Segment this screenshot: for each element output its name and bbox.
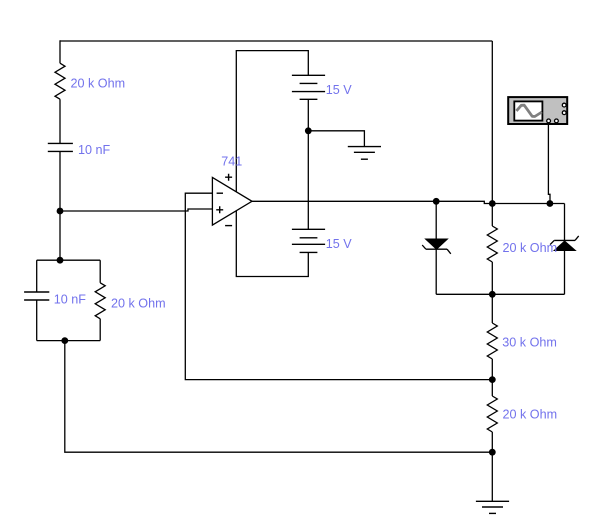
wire RC box right upper	[99, 260, 101, 283]
ground GND1	[348, 147, 381, 160]
op-amp marks: V- minus	[225, 225, 232, 227]
wire R4 to node I	[491, 359, 493, 380]
op-amp marks: inverting minus	[217, 192, 223, 194]
wire top rail	[60, 40, 492, 42]
wire RC box right lower	[99, 319, 101, 341]
op-amp U1 triangle	[212, 177, 252, 225]
wire RC box left lower	[36, 300, 38, 341]
wire node A down to RC box	[59, 211, 61, 260]
resistor R2 20 k Ohm	[95, 283, 105, 319]
op-amp U1 V+ supply stub and connector to battery V1	[236, 51, 308, 192]
wire node I to resistor R5	[491, 380, 493, 396]
svg-text:20 k Ohm: 20 k Ohm	[503, 241, 558, 255]
oscilloscope XSC1	[508, 97, 567, 124]
wire node A to op-amp noninverting input	[60, 209, 212, 211]
wire R5 to node J	[491, 432, 493, 452]
wire diode D2 branch upper	[564, 204, 566, 241]
node J	[489, 449, 496, 456]
node C	[61, 337, 68, 344]
node E	[433, 198, 440, 205]
wire resistor R3 upper stub	[491, 204, 493, 227]
zener diode D2	[550, 236, 579, 251]
wire node C down and bottom rail	[65, 341, 493, 453]
resistor R1 20 k Ohm	[55, 63, 65, 99]
svg-text:741: 741	[221, 155, 242, 169]
wire battery V1 to node D	[307, 99, 309, 131]
wire diode D1 branch lower	[435, 249, 437, 294]
wire C1 to node A	[59, 151, 61, 211]
svg-text:15 V: 15 V	[326, 83, 353, 97]
wire battery V2 bottom to op-amp V- supply stub	[236, 211, 308, 277]
wire node H to resistor R4	[491, 294, 493, 323]
resistor R3 20 k Ohm	[487, 226, 497, 262]
svg-text:20 k Ohm: 20 k Ohm	[503, 408, 558, 422]
wire feedback from inverting input to node I	[185, 193, 492, 380]
wire op-amp output	[252, 201, 565, 203]
ground GND2	[476, 501, 509, 513]
node G	[547, 200, 554, 207]
op-amp marks: noninverting plus	[216, 206, 223, 213]
wire RC box left upper	[36, 260, 38, 292]
node B	[57, 257, 64, 264]
wire oscilloscope lead	[548, 125, 550, 204]
resistor R4 30 k Ohm	[487, 323, 497, 359]
wire node D to ground GND1	[308, 131, 364, 147]
capacitor C1 10 nF	[48, 143, 73, 151]
zener diode D1	[422, 239, 451, 254]
op-amp U1 inverting input pin	[185, 192, 212, 194]
wire right rail from top to node F	[491, 41, 493, 204]
wire zener block bottom	[436, 293, 564, 295]
wire RC box top	[37, 259, 100, 261]
node F	[489, 200, 496, 207]
battery V1 15 V plates	[292, 75, 325, 99]
wire diode D2 branch lower	[564, 250, 566, 294]
resistor R5 20 k Ohm	[487, 396, 497, 432]
wire node J to ground GND2	[491, 452, 493, 501]
svg-text:20 k Ohm: 20 k Ohm	[111, 297, 166, 311]
wire R1 to C1	[59, 99, 61, 143]
wire resistor R3 lower stub	[491, 262, 493, 294]
svg-text:10 nF: 10 nF	[78, 143, 111, 157]
wire battery rail node D to battery V2	[307, 131, 309, 230]
svg-text:10 nF: 10 nF	[54, 292, 87, 306]
svg-text:15 V: 15 V	[326, 237, 353, 251]
wire diode D1 branch upper	[435, 201, 437, 239]
wire left rail upper	[59, 40, 61, 63]
node H	[489, 291, 496, 298]
svg-text:20 k Ohm: 20 k Ohm	[71, 77, 126, 91]
node I	[489, 376, 496, 383]
battery V2 15 V plates	[292, 229, 325, 252]
svg-text:30 k Ohm: 30 k Ohm	[502, 336, 557, 350]
node D	[305, 127, 312, 134]
capacitor C2 10 nF	[24, 292, 49, 300]
wire RC box bottom	[37, 340, 100, 342]
op-amp marks: V+ plus	[225, 174, 232, 181]
node A	[57, 208, 64, 215]
